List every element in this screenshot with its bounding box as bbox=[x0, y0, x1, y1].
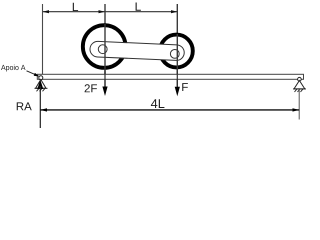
label RA bbox=[17, 102, 24, 110]
label L span 2 bbox=[136, 2, 141, 10]
leader arrowhead bbox=[34, 73, 40, 77]
wire: centre line over wheel 2 bbox=[176, 34, 178, 74]
right extension line through wheel 2 bbox=[176, 4, 178, 88]
left extension line bbox=[42, 4, 44, 74]
reaction RA shaft / left extension bbox=[39, 86, 41, 128]
right extension line bbox=[298, 89, 300, 120]
support A triangle bbox=[36, 80, 46, 89]
dim arrow right bbox=[171, 10, 178, 13]
bottom dimension line 4L bbox=[40, 109, 299, 111]
support B triangle bbox=[294, 81, 305, 89]
leader line Apoio A bbox=[27, 71, 38, 76]
force F arrowhead bbox=[175, 87, 180, 97]
dim arrow 4L left bbox=[40, 108, 47, 111]
wheel 1 (large pulley) bbox=[83, 25, 126, 68]
centre extension line through wheel 1 bbox=[104, 4, 106, 88]
support A pin circle bbox=[39, 76, 43, 80]
label 2F bbox=[85, 84, 90, 92]
pin 1 bbox=[98, 45, 107, 54]
label Apoio A bbox=[1, 65, 6, 70]
force 2F shaft bbox=[104, 72, 106, 89]
wheel 2 (small pulley) bbox=[160, 35, 193, 68]
wire: centre line over wheel 1 bbox=[104, 24, 106, 74]
beam bbox=[37, 74, 303, 79]
connecting link bbox=[90, 41, 185, 61]
force 2F arrowhead bbox=[102, 87, 107, 97]
reaction RA arrowhead bbox=[37, 80, 43, 89]
dim arrow 4L right bbox=[293, 108, 300, 111]
top dimension line bbox=[43, 11, 178, 13]
support A base hatching bbox=[35, 88, 48, 91]
pin 2 bbox=[170, 50, 179, 59]
label F bbox=[182, 83, 188, 91]
dim arrow left bbox=[43, 10, 50, 13]
support B pin circle bbox=[298, 77, 302, 81]
force F shaft bbox=[176, 72, 178, 89]
support B base hatching bbox=[293, 89, 306, 92]
dim arrow mid bbox=[99, 10, 106, 13]
label L span 1 bbox=[73, 3, 78, 11]
label 4L bbox=[151, 99, 157, 108]
